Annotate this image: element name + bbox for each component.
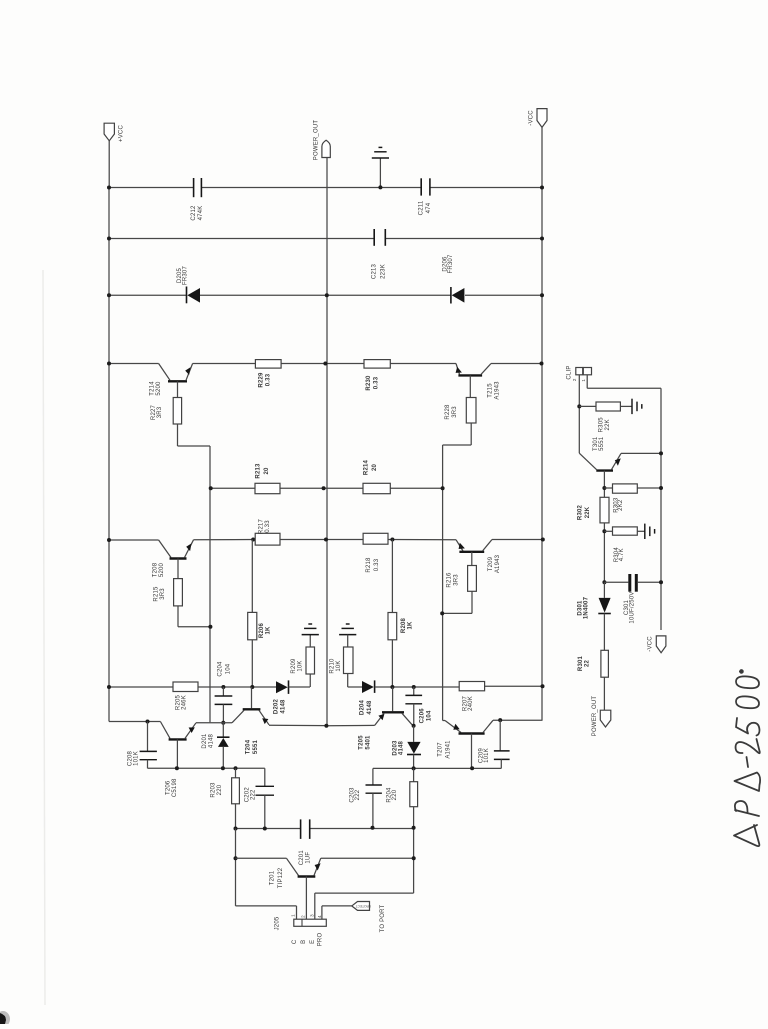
svg-text:T208: T208 <box>153 562 159 577</box>
svg-text:B: B <box>301 940 307 944</box>
transistor T205 <box>392 687 394 711</box>
svg-text:474K: 474K <box>198 206 204 221</box>
svg-text:22K: 22K <box>605 419 611 430</box>
capacitor C301 <box>602 580 606 584</box>
wire bus row 2 <box>109 238 374 240</box>
svg-text:220: 220 <box>217 784 223 795</box>
resistor R229 <box>255 360 281 369</box>
node output rail bottom junction <box>324 724 328 728</box>
svg-text:T204: T204 <box>246 739 252 754</box>
resistor R303 <box>604 487 612 489</box>
svg-text:R305: R305 <box>599 417 605 433</box>
svg-text:5200: 5200 <box>156 381 162 396</box>
svg-text:101K: 101K <box>134 751 140 766</box>
capacitor C201 <box>300 819 302 839</box>
svg-text:T206: T206 <box>166 780 172 795</box>
transistor T204 <box>251 687 253 708</box>
svg-text:T207: T207 <box>438 742 444 757</box>
node row B junctions <box>209 486 213 490</box>
svg-text:R213: R213 <box>256 463 262 479</box>
svg-text:C212: C212 <box>191 205 197 221</box>
transistor T208 <box>159 540 171 558</box>
wire R227 to driver bus <box>178 445 211 447</box>
resistor R209 <box>309 674 311 687</box>
svg-text:T214: T214 <box>150 381 156 396</box>
svg-text:223K: 223K <box>381 264 387 279</box>
wire driver bus right (x=442) <box>442 445 444 721</box>
svg-text:1: 1 <box>581 379 586 382</box>
svg-text:T209: T209 <box>488 556 494 571</box>
transistor T209 <box>456 540 463 551</box>
node bus row 3 junctions <box>107 293 111 297</box>
svg-text:2: 2 <box>300 915 305 918</box>
svg-text:R215: R215 <box>154 586 160 602</box>
diode D301 <box>603 582 605 598</box>
capacitor C211 <box>420 178 422 195</box>
svg-text:D202: D202 <box>274 698 280 714</box>
resistor R304 <box>604 530 612 532</box>
transistor T214 <box>159 364 170 381</box>
svg-text:222: 222 <box>355 789 361 800</box>
wire row C (driver collectors) <box>109 539 159 541</box>
ground right of R304 <box>644 524 646 539</box>
node bus row 2 junctions <box>107 237 111 241</box>
svg-text:0.33: 0.33 <box>265 520 271 533</box>
wire R216 to driver bus (right) <box>442 612 472 614</box>
svg-text:TO PORT: TO PORT <box>380 904 386 932</box>
svg-text:3R3: 3R3 <box>160 588 166 600</box>
resistor R205 <box>173 682 198 692</box>
svg-text:CLIP: CLIP <box>567 365 573 379</box>
svg-text:-VCC: -VCC <box>529 110 535 126</box>
svg-text:10K: 10K <box>298 660 304 671</box>
connector POWER_OUT (top) <box>322 140 330 157</box>
svg-text:C213: C213 <box>372 263 378 279</box>
svg-text:A1941: A1941 <box>446 740 452 759</box>
svg-text:20: 20 <box>372 464 378 472</box>
capacitor C206 <box>413 687 415 695</box>
svg-text:20: 20 <box>264 467 270 475</box>
wire R228 to driver bus (right) <box>443 444 472 446</box>
svg-text:PRO: PRO <box>318 933 324 947</box>
svg-text:220: 220 <box>392 789 398 800</box>
svg-text:5200: 5200 <box>159 562 165 577</box>
svg-text:2K2: 2K2 <box>618 499 624 511</box>
wire bus row 3 <box>109 294 187 296</box>
svg-text:5551: 5551 <box>599 436 605 451</box>
transistor T301 <box>579 453 596 469</box>
diode D205 <box>186 287 188 304</box>
svg-text:1K: 1K <box>407 621 413 630</box>
svg-text:R210: R210 <box>330 658 336 674</box>
diode D206 <box>450 287 452 304</box>
capacitor C203 <box>372 768 374 785</box>
node bus row 1 junctions <box>107 186 111 190</box>
svg-text:E: E <box>310 940 316 944</box>
svg-text:R217: R217 <box>259 518 265 534</box>
svg-text:R302: R302 <box>578 504 584 520</box>
svg-text:R230: R230 <box>366 375 372 391</box>
svg-text:246K: 246K <box>182 695 188 710</box>
transistor T201 <box>236 857 287 859</box>
svg-text:3R3: 3R3 <box>157 406 163 418</box>
svg-text:+VCC: +VCC <box>119 125 125 142</box>
ground right of R305 <box>631 399 633 414</box>
resistor R227 <box>173 398 181 425</box>
ground above R209 <box>302 634 319 636</box>
svg-text:104: 104 <box>226 663 232 674</box>
svg-text:POWER_OUT: POWER_OUT <box>592 696 598 737</box>
svg-text:1N4007: 1N4007 <box>584 596 590 619</box>
svg-text:FR307: FR307 <box>182 266 188 285</box>
svg-text:R203: R203 <box>211 782 217 798</box>
svg-text:101K: 101K <box>484 748 490 763</box>
svg-text:1: 1 <box>291 914 296 917</box>
svg-text:R301: R301 <box>578 655 584 671</box>
svg-text:222: 222 <box>251 789 257 800</box>
svg-text:R206: R206 <box>259 622 265 638</box>
node row C junctions <box>107 538 111 542</box>
svg-text:R216: R216 <box>447 572 453 588</box>
svg-text:5401: 5401 <box>366 735 372 750</box>
resistor R301 <box>601 650 609 677</box>
resistor R228 <box>466 398 476 424</box>
wire R210 to D204 <box>348 686 362 688</box>
svg-text:R208: R208 <box>401 617 407 633</box>
svg-text:3: 3 <box>309 914 314 917</box>
node row A junctions <box>107 362 111 366</box>
wire C201 row <box>236 828 301 830</box>
svg-text:104: 104 <box>427 710 433 721</box>
svg-text:C211: C211 <box>419 200 425 215</box>
svg-text:10K: 10K <box>336 660 342 671</box>
resistor R230 <box>364 360 390 369</box>
svg-text:C206: C206 <box>420 708 426 724</box>
handwritten title APD-2500 <box>734 670 760 846</box>
svg-text:-VCC: -VCC <box>648 636 654 652</box>
wire J205 pin4 to PROTECT <box>321 906 323 919</box>
svg-text:22K: 22K <box>585 506 591 518</box>
wire -VCC rail <box>541 127 543 720</box>
svg-text:474: 474 <box>426 202 432 213</box>
wire -VCC rail corner to T207 collector <box>493 719 543 721</box>
wire bus row 1 <box>109 187 194 189</box>
resistor R203 <box>235 768 237 778</box>
node T301 base junction <box>602 486 606 490</box>
wire CLIP pin1 to right rail <box>586 375 588 389</box>
wire row B (R213/R214 row) <box>211 487 255 489</box>
capacitor C202 <box>264 768 266 786</box>
resistor R215 <box>174 579 183 606</box>
svg-text:0.33: 0.33 <box>374 558 380 571</box>
scan artifact: fold line <box>43 270 45 1005</box>
svg-text:J205: J205 <box>275 916 281 930</box>
svg-text:A1943: A1943 <box>495 381 501 400</box>
power symbol +VCC <box>104 123 114 141</box>
svg-text:D201: D201 <box>202 733 208 749</box>
transistor T207 <box>443 720 445 722</box>
diode D204 <box>362 681 374 693</box>
wire bottom row right (y=768) <box>373 767 501 769</box>
svg-text:POWER_OUT: POWER_OUT <box>314 120 320 161</box>
resistor R208 <box>391 540 393 613</box>
wire row A (output collectors top) <box>109 363 159 365</box>
svg-text:R218: R218 <box>366 557 372 573</box>
wire driver bus left (x=210) <box>209 446 211 722</box>
connector POWER_OUT (bottom) <box>600 710 611 727</box>
node bias row junctions <box>221 685 225 689</box>
svg-text:FR307: FR307 <box>448 254 454 273</box>
svg-text:C201: C201 <box>299 850 305 866</box>
svg-text:22: 22 <box>585 660 591 668</box>
resistor R214 <box>363 483 390 493</box>
transistor T206 <box>109 721 160 723</box>
svg-text:A1943: A1943 <box>495 554 501 573</box>
wire T206 emitter to T204 collector <box>196 722 232 724</box>
wire POWER_OUT rail <box>326 158 328 726</box>
svg-text:2: 2 <box>572 378 577 381</box>
svg-text:4148: 4148 <box>399 740 405 755</box>
resistor R210 <box>347 635 349 647</box>
svg-text:T205: T205 <box>359 735 365 750</box>
ground (top, above bus row 1) <box>379 158 381 187</box>
connector PROTECT (to port) <box>352 902 370 911</box>
svg-text:TIP122: TIP122 <box>278 867 284 888</box>
svg-text:4.7K: 4.7K <box>619 548 625 561</box>
svg-text:1UF: 1UF <box>306 852 312 864</box>
svg-text:C: C <box>292 939 298 944</box>
connector J205 <box>294 919 327 926</box>
scan artifact: corner blob <box>0 1013 6 1024</box>
wire left rail <box>108 188 110 722</box>
power symbol -VCC (bottom) <box>656 636 666 653</box>
wire left branch down to J205 pin1 <box>235 829 237 906</box>
svg-text:R227: R227 <box>151 404 157 420</box>
svg-text:D204: D204 <box>360 699 366 715</box>
svg-text:R228: R228 <box>445 404 451 420</box>
diode D203 <box>413 726 415 742</box>
svg-text:4148: 4148 <box>367 700 373 715</box>
svg-text:C5198: C5198 <box>172 778 178 797</box>
wire +VCC stem <box>108 141 110 188</box>
svg-text:C204: C204 <box>218 661 224 677</box>
svg-text:R229: R229 <box>259 372 265 388</box>
svg-text:3R3: 3R3 <box>452 406 458 418</box>
capacitor C209 <box>498 718 502 722</box>
power symbol -VCC (top right) <box>537 109 547 128</box>
svg-text:D203: D203 <box>392 740 398 756</box>
svg-text:4148: 4148 <box>281 699 287 714</box>
svg-text:4148: 4148 <box>208 733 214 748</box>
capacitor C208 <box>146 720 150 724</box>
wire R204 branch to J205 pin3 <box>315 892 414 894</box>
node bias diode junctions <box>221 721 225 725</box>
resistor R217 <box>255 533 280 545</box>
wire CLIP pin2 down <box>578 375 580 453</box>
resistor R207 <box>459 682 484 691</box>
svg-text:240K: 240K <box>468 696 474 711</box>
node T205 base junctions <box>390 685 394 689</box>
resistor R216 <box>468 566 477 592</box>
svg-text:0.33: 0.33 <box>374 376 380 389</box>
resistor R206 <box>251 540 253 613</box>
resistor R204 <box>413 768 415 781</box>
connector CLIP <box>576 368 583 375</box>
capacitor C204 <box>222 687 224 696</box>
svg-text:1K: 1K <box>266 626 272 635</box>
resistor R213 <box>255 483 280 493</box>
svg-text:R209: R209 <box>291 658 297 674</box>
wire R205 row <box>109 686 173 688</box>
resistor R305 <box>579 405 596 407</box>
svg-text:4: 4 <box>317 915 322 918</box>
svg-text:3R3: 3R3 <box>454 574 460 586</box>
svg-text:R214: R214 <box>364 459 370 475</box>
capacitor C213 <box>373 229 375 246</box>
wire bottom row left (y=768) <box>148 767 265 769</box>
svg-text:10UF/250V: 10UF/250V <box>630 591 636 623</box>
svg-text:PROTECT: PROTECT <box>356 904 371 908</box>
svg-text:5551: 5551 <box>253 739 259 754</box>
resistor R218 <box>363 533 388 544</box>
wire R215 to driver bus <box>178 626 210 628</box>
svg-text:0.33: 0.33 <box>266 373 272 386</box>
diode D201 <box>222 723 224 737</box>
svg-text:T201: T201 <box>270 870 276 885</box>
resistor R302 <box>600 497 609 523</box>
diode D202 <box>276 681 288 693</box>
capacitor C212 <box>193 178 195 197</box>
ground above R210 <box>339 634 356 636</box>
transistor T215 <box>456 364 460 375</box>
svg-text:T215: T215 <box>488 383 494 398</box>
